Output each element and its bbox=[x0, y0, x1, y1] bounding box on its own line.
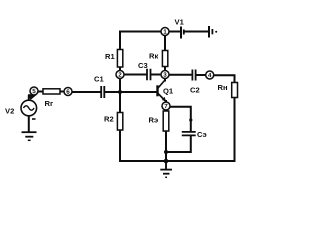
wire C1 to base bbox=[105, 91, 158, 93]
svg-text:C2: C2 bbox=[190, 86, 200, 95]
node 4 bbox=[206, 71, 214, 79]
wire C2 to node4 bbox=[197, 74, 207, 76]
svg-text:V1: V1 bbox=[175, 18, 185, 27]
battery V1 wire between cells bbox=[185, 31, 208, 33]
wire node2 down to base junction bbox=[119, 78, 121, 93]
wire bottom rail bbox=[120, 160, 235, 162]
node 1 bbox=[161, 28, 169, 36]
junction base bbox=[118, 90, 122, 94]
svg-text:C3: C3 bbox=[138, 61, 148, 70]
wire V2 bottom to ground bbox=[28, 116, 30, 132]
svg-text:Cэ: Cэ bbox=[197, 130, 207, 139]
wire node4 to right edge bbox=[213, 75, 235, 82]
wire top rail bbox=[120, 31, 180, 33]
junction rail ground bbox=[164, 159, 169, 164]
svg-text:Rэ: Rэ bbox=[149, 116, 159, 125]
wire Ce bottom to Re bottom bbox=[166, 136, 191, 152]
resistor R1 bbox=[105, 50, 123, 68]
ground main (emitter) bbox=[160, 161, 172, 177]
capacitor C2 bbox=[190, 70, 200, 95]
node 2 bbox=[116, 71, 124, 79]
svg-text:R1: R1 bbox=[105, 52, 115, 61]
resistor Rg bbox=[43, 89, 60, 108]
node 3 bbox=[161, 71, 169, 79]
wire node2 to C3 bbox=[123, 74, 147, 76]
junction Re bottom bbox=[164, 150, 168, 154]
capacitor C3 bbox=[138, 61, 151, 80]
svg-text:Rн: Rн bbox=[218, 83, 228, 92]
svg-text:V2: V2 bbox=[5, 107, 14, 116]
wire C3 to node3 bbox=[151, 74, 162, 76]
wire Re bottom to rail bbox=[165, 131, 167, 161]
wire junction to R2 bbox=[119, 92, 121, 113]
node 5 bbox=[30, 87, 38, 95]
capacitor Ce bbox=[182, 130, 207, 139]
wire Rg to node6 bbox=[60, 91, 65, 93]
wire node6 to C1 bbox=[71, 91, 101, 93]
svg-text:R2: R2 bbox=[104, 115, 114, 124]
node 6 bbox=[64, 88, 72, 96]
junction Ce top bbox=[189, 118, 192, 121]
resistor R2 bbox=[104, 113, 123, 131]
wire Rk bottom to node3 bbox=[164, 67, 166, 72]
wire Rn bottom to rail bbox=[234, 98, 236, 162]
wire V2 top bbox=[28, 96, 30, 101]
resistor Rk bbox=[149, 51, 168, 67]
svg-text:Rк: Rк bbox=[149, 52, 158, 61]
svg-text:C1: C1 bbox=[94, 75, 104, 84]
battery V1 bbox=[175, 18, 218, 39]
wire node7 to Ce branch bbox=[170, 107, 191, 131]
source V2 bbox=[5, 94, 37, 119]
svg-text:Q1: Q1 bbox=[163, 87, 174, 96]
svg-text:Rг: Rг bbox=[45, 99, 54, 108]
node 7 bbox=[162, 102, 170, 110]
wire emitter to node7 bbox=[165, 101, 167, 103]
wire R2 bottom to rail bbox=[119, 130, 121, 161]
resistor Re bbox=[149, 111, 169, 131]
wire node5 to Rg bbox=[38, 91, 44, 93]
capacitor C1 bbox=[94, 75, 104, 99]
wire node3 to collector bbox=[164, 78, 166, 81]
resistor Rn bbox=[218, 83, 238, 98]
wire R1 bottom to node2 bbox=[119, 67, 121, 72]
wire Rk top drop bbox=[164, 32, 166, 51]
wire R1 top drop bbox=[119, 32, 121, 50]
wire node7 to Re bbox=[165, 110, 167, 112]
wire node3 to C2 bbox=[169, 74, 192, 76]
ground under V2 bbox=[22, 132, 37, 140]
transistor Q1 bbox=[158, 80, 174, 101]
